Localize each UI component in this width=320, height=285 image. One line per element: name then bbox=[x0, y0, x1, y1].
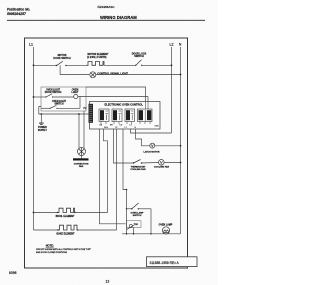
wire L2 rail bbox=[171, 47, 173, 133]
wire latch to N bbox=[155, 145, 181, 147]
wire fan row seg2 bbox=[142, 162, 159, 165]
switch oven light door bbox=[45, 94, 53, 98]
EOC relay box 1 bbox=[99, 109, 109, 122]
EOC electronic oven control box bbox=[90, 102, 161, 130]
switch oven light lower bbox=[41, 97, 80, 109]
thermal switch box oven light bbox=[127, 221, 142, 230]
junction L1 box bbox=[33, 96, 35, 98]
wire broil row seg2 bbox=[75, 212, 108, 214]
wire lamp switch down bbox=[150, 209, 152, 234]
wire N rail bbox=[180, 47, 182, 234]
wire EOC pin v3 to cooling fan row bbox=[114, 129, 134, 163]
wire row1 seg2 bbox=[66, 64, 87, 66]
wire row1 bbox=[34, 64, 57, 66]
wire box branch bbox=[53, 96, 74, 98]
EOC pin labels bbox=[100, 125, 160, 129]
switch motor door (S1) bbox=[53, 54, 71, 66]
junction bus ground tap bbox=[40, 113, 42, 115]
EOC relay box 2 bbox=[112, 109, 122, 122]
scan noise overlay bbox=[0, 0, 1, 1]
junction lamp row right bbox=[150, 233, 152, 235]
switch cooling fan thermostat bbox=[130, 160, 146, 171]
EOC relay box 3 bbox=[125, 109, 135, 122]
lamp oven light small bbox=[74, 94, 78, 98]
wire conv fan feed 2 bbox=[83, 111, 85, 148]
wire row1 seg3 bbox=[104, 64, 136, 66]
element broil bbox=[56, 208, 76, 218]
switch oven lamp bbox=[126, 203, 151, 217]
diagram border frame bbox=[25, 38, 188, 268]
oven light circuit box bbox=[41, 87, 86, 111]
element bake bbox=[56, 225, 78, 235]
junction L1 broil bbox=[33, 212, 35, 214]
header rule bbox=[7, 19, 205, 21]
junction row2 N bbox=[180, 74, 182, 76]
wire L1 to box bbox=[34, 96, 47, 98]
junction latch N bbox=[180, 145, 182, 147]
motor latch bbox=[144, 143, 160, 154]
wire EOC pin v2 to broil row bbox=[104, 129, 108, 213]
part number box bbox=[147, 257, 198, 267]
wire row2 seg2 bbox=[96, 74, 181, 76]
junction L1 row1 bbox=[33, 64, 35, 66]
motor convection fan bbox=[73, 148, 89, 169]
junction lamp switch feed bbox=[126, 189, 128, 191]
wire fan to N bbox=[164, 162, 180, 164]
wire box lower-left drop to bus bbox=[39, 107, 90, 115]
lamp control signal light bbox=[90, 72, 129, 78]
wire conv fan feed 1 bbox=[78, 114, 80, 148]
wire EOC L2 feed bbox=[131, 129, 172, 133]
wire box drop left bbox=[126, 233, 128, 235]
junction fan N bbox=[180, 162, 182, 164]
switch door lock (S2) bbox=[132, 53, 147, 66]
wire EOC latch feed bbox=[136, 129, 150, 146]
header publication no bbox=[7, 8, 30, 17]
wire L1 corner bake row bbox=[34, 229, 59, 231]
junction row1 L2 bbox=[171, 64, 173, 66]
wire L1 rail bbox=[33, 47, 35, 230]
wire EOC pin v5 to lamp switch feed bbox=[123, 129, 127, 234]
wire EOC pin v4 to bake row bbox=[116, 129, 118, 230]
wire broil row bbox=[34, 212, 58, 214]
wire EOC pin v1 to lamp box feed bbox=[100, 129, 126, 224]
EOC pin stubs bbox=[101, 122, 150, 125]
wire box top feed to EOC bbox=[86, 87, 146, 102]
wire box branch to EOC bbox=[147, 97, 149, 102]
wire box drop right bbox=[133, 228, 135, 234]
lamp oven bbox=[159, 223, 173, 234]
junction conv feed bbox=[78, 113, 80, 115]
junction box drop right bbox=[133, 233, 135, 235]
EOC relay box 4 bbox=[138, 109, 153, 122]
EOC terminal strip bbox=[89, 104, 94, 123]
ground chassis bbox=[38, 114, 47, 132]
note text bbox=[36, 244, 91, 254]
wire row2 drop bbox=[60, 65, 89, 74]
element motor (square wave) bbox=[87, 53, 109, 65]
wire lamp row bbox=[122, 233, 181, 235]
motor cooling fan bbox=[154, 160, 170, 169]
wire box branch out bbox=[78, 96, 148, 98]
wire bake row seg2 bbox=[78, 229, 117, 231]
wire row1 seg4 bbox=[142, 64, 172, 66]
wire EOC internal drops to relay 4 bbox=[146, 102, 149, 110]
